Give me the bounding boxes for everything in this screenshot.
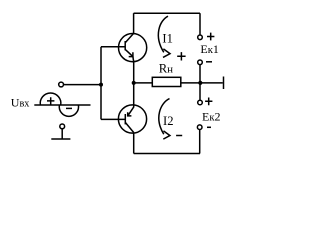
wire bottom rail xyxy=(134,153,200,155)
svg-text:I1: I1 xyxy=(162,31,173,45)
terminal Ek2 plus xyxy=(198,100,203,105)
current arrow I1 xyxy=(158,16,170,57)
label plus I1 xyxy=(177,52,185,60)
node middle rail junction xyxy=(198,81,202,85)
source negative half-wave xyxy=(59,105,78,116)
current arrow I2 xyxy=(159,99,170,140)
ground xyxy=(51,129,70,139)
wire VT2 base lead xyxy=(101,118,125,120)
svg-text:Rн: Rн xyxy=(159,62,173,76)
wire middle rail right xyxy=(181,82,223,84)
label minus Ek1 xyxy=(206,61,212,63)
terminal Ek1 minus xyxy=(198,60,203,65)
terminal source top xyxy=(59,82,64,87)
wire top rail xyxy=(134,12,200,14)
svg-text:I2: I2 xyxy=(163,114,174,128)
transistor VT2 xyxy=(118,105,146,133)
label plus Ek1 xyxy=(207,33,214,41)
wire VT1 base lead xyxy=(101,46,125,48)
terminal Ek1 plus xyxy=(198,35,203,40)
wire VT1 collector to top rail xyxy=(133,13,135,33)
terminal Ek2 minus xyxy=(197,125,202,130)
label plus Ek2 xyxy=(205,98,212,106)
wire output node vertical xyxy=(133,61,135,108)
wire VT2 collector to bottom rail xyxy=(133,133,135,154)
svg-text:Ек2: Ек2 xyxy=(202,109,221,123)
wire middle rail left xyxy=(134,82,153,84)
source positive half-wave xyxy=(40,93,61,105)
svg-text:Ек1: Ек1 xyxy=(200,42,219,56)
node output junction xyxy=(132,81,136,85)
terminal source bottom xyxy=(60,124,65,129)
transistor VT1 xyxy=(119,34,147,63)
source sine line xyxy=(34,104,90,106)
wire middle rail to Ek2 plus xyxy=(199,83,201,100)
wire input to base bus xyxy=(64,84,101,86)
wire Ek2 minus to bottom rail xyxy=(199,130,201,154)
label minus source xyxy=(66,107,72,109)
terminal end bar xyxy=(223,77,225,90)
svg-text:Uвх: Uвх xyxy=(11,96,30,110)
wire Ek1 minus to middle rail xyxy=(199,65,201,83)
resistor Rн xyxy=(152,77,181,86)
wire Ek1 plus lead xyxy=(199,13,201,35)
node base bus junction xyxy=(99,83,103,87)
label minus I2 xyxy=(176,135,182,137)
label plus source xyxy=(47,97,54,105)
wire base bus vertical xyxy=(100,47,102,120)
label minus Ek2 xyxy=(207,126,211,128)
